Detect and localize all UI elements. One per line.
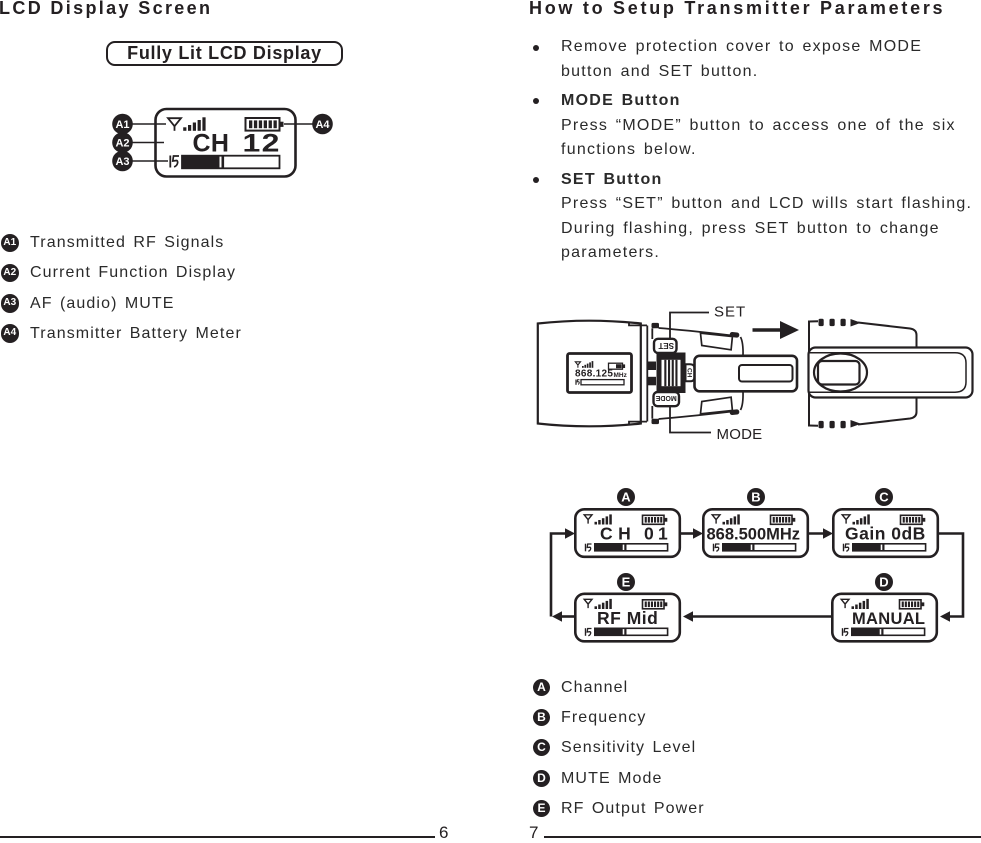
- svg-text:A4: A4: [315, 119, 330, 131]
- svg-text:SET: SET: [658, 341, 674, 350]
- svg-text:CH: CH: [600, 524, 636, 544]
- svg-text:A1: A1: [115, 119, 129, 131]
- svg-text:A3: A3: [115, 156, 129, 168]
- svg-text:01: 01: [644, 524, 672, 544]
- svg-text:C: C: [879, 490, 889, 505]
- svg-text:CH: CH: [193, 130, 230, 158]
- svg-text:MODE: MODE: [655, 394, 676, 401]
- svg-text:D: D: [879, 575, 888, 590]
- svg-text:SET: SET: [714, 304, 746, 321]
- svg-text:RF Mid: RF Mid: [597, 608, 658, 628]
- svg-text:E: E: [622, 575, 631, 590]
- svg-text:868.125: 868.125: [575, 369, 613, 380]
- svg-text:868.500MHz: 868.500MHz: [707, 526, 801, 544]
- svg-text:MODE: MODE: [717, 426, 763, 443]
- svg-text:Gain 0dB: Gain 0dB: [845, 524, 926, 544]
- svg-text:MHz: MHz: [614, 372, 628, 379]
- svg-text:MANUAL: MANUAL: [852, 610, 925, 628]
- svg-text:12: 12: [243, 130, 281, 158]
- svg-text:A2: A2: [115, 138, 129, 150]
- svg-text:B: B: [751, 490, 760, 505]
- svg-text:A: A: [621, 490, 631, 505]
- svg-text:CH: CH: [686, 368, 693, 378]
